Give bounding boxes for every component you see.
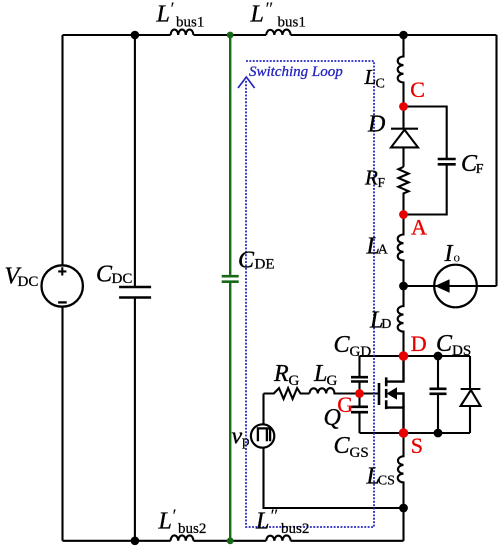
wire left vertical (VDC branch) [61, 35, 63, 541]
svg-text:G: G [327, 373, 338, 389]
svg-text:I: I [444, 241, 454, 267]
label CDE [238, 248, 275, 274]
svg-text:C: C [334, 433, 351, 459]
node C dot [399, 102, 408, 111]
svg-text:C: C [238, 248, 255, 274]
svg-text:S: S [411, 433, 423, 458]
label Io [444, 241, 461, 267]
svg-text:A: A [411, 215, 427, 240]
svg-text:′: ′ [171, 0, 175, 20]
svg-text:″: ″ [266, 0, 274, 20]
label CGD [334, 332, 372, 360]
node D label [411, 331, 427, 356]
label CDS [436, 331, 471, 359]
wire bottom bus [63, 540, 404, 542]
svg-text:″: ″ [271, 506, 279, 527]
label CF [461, 151, 484, 177]
svg-text:DC: DC [112, 271, 133, 287]
svg-text:C: C [410, 77, 425, 102]
node G label [337, 392, 353, 417]
svg-text:GS: GS [350, 445, 369, 461]
svg-text:F: F [476, 162, 484, 177]
label CGS [334, 433, 369, 461]
switching loop arrow [238, 77, 255, 88]
svg-text:D: D [411, 331, 427, 356]
svg-text:Switching Loop: Switching Loop [249, 64, 343, 80]
svg-text:R: R [273, 361, 289, 387]
inductor L''bus2 [266, 535, 290, 540]
svg-text:A: A [378, 243, 389, 258]
label LG [313, 361, 338, 389]
switching loop label [249, 64, 343, 80]
svg-text:DS: DS [452, 343, 471, 359]
svg-text:CS: CS [378, 473, 395, 488]
junction dots black [131, 31, 443, 545]
label VDC [5, 263, 39, 290]
svg-text:L: L [250, 2, 264, 28]
label RG [273, 361, 300, 389]
wire right vertical (Io return) [495, 35, 497, 286]
label LC [364, 65, 385, 92]
svg-text:GD: GD [350, 344, 372, 360]
svg-text:C: C [376, 77, 385, 92]
inductor LC [398, 35, 404, 107]
resistor RF [398, 167, 408, 215]
svg-text:o: o [454, 250, 461, 265]
label LA [366, 234, 389, 260]
transistor Q (MOSFET) [360, 356, 404, 433]
capacitor CGD [351, 356, 368, 394]
svg-text:L: L [313, 361, 327, 387]
svg-text:G: G [289, 373, 300, 389]
svg-text:bus1: bus1 [278, 15, 306, 31]
label L'bus1 [156, 0, 205, 31]
svg-text:G: G [337, 392, 353, 417]
svg-text:C: C [436, 331, 453, 357]
inductor L'bus2 [171, 535, 194, 540]
inductor LG [310, 388, 360, 393]
switching loop boundary (blue dotted) [246, 61, 374, 527]
diode body (antiparallel) [461, 356, 481, 433]
svg-text:C: C [96, 262, 113, 288]
svg-text:R: R [364, 166, 378, 190]
inductor L''bus1 [266, 30, 290, 35]
svg-text:′: ′ [173, 506, 177, 527]
svg-text:bus2: bus2 [281, 521, 309, 537]
capacitor CDC [119, 35, 151, 541]
node A dot [399, 210, 408, 219]
wire drain row (node D) [360, 355, 471, 357]
source VDC [42, 265, 83, 306]
source vp (gate pulse source) [251, 394, 404, 509]
svg-text:L: L [158, 508, 172, 534]
svg-text:L: L [364, 65, 377, 89]
svg-text:L: L [156, 2, 170, 28]
label Q [324, 405, 341, 431]
node A label [411, 215, 427, 240]
label L''bus1 [250, 0, 306, 31]
svg-text:v: v [232, 424, 243, 450]
wire source row (node S) [360, 432, 471, 434]
resistor RG [264, 388, 310, 399]
label D (diode) [367, 112, 385, 138]
capacitor CDE (green decoupling branch) [222, 35, 239, 541]
label CDC [96, 262, 132, 288]
inductor LCS [398, 433, 404, 508]
source Io (current source) [404, 265, 497, 308]
capacitor CGS [351, 394, 368, 434]
svg-text:D: D [381, 317, 391, 332]
svg-text:F: F [378, 175, 386, 190]
node S label [411, 433, 423, 458]
svg-text:D: D [367, 112, 385, 138]
node C label [410, 77, 425, 102]
label L'bus2 [158, 506, 207, 537]
label LD [369, 308, 391, 334]
node S dot [399, 428, 409, 438]
svg-text:DC: DC [18, 274, 39, 290]
label L''bus2 [255, 506, 309, 537]
capacitor CF branch [404, 107, 456, 215]
svg-text:DE: DE [255, 257, 275, 273]
inductor LD [398, 286, 404, 356]
svg-text:bus2: bus2 [178, 521, 206, 537]
wire top bus [63, 34, 497, 36]
label LCS [366, 464, 395, 490]
wire LCS to bottom bus [402, 508, 404, 541]
svg-text:bus1: bus1 [176, 15, 204, 31]
label RF [364, 166, 386, 191]
label vp [232, 424, 250, 450]
svg-text:p: p [242, 434, 250, 450]
inductor LA [398, 215, 404, 287]
svg-text:C: C [334, 332, 351, 358]
inductor L'bus1 [171, 30, 194, 35]
junction dots green [227, 32, 234, 545]
capacitor CDS branch [430, 356, 447, 433]
node G dot [355, 389, 364, 398]
node D dot [399, 351, 409, 361]
svg-text:L: L [255, 508, 269, 534]
diode D [391, 107, 418, 167]
